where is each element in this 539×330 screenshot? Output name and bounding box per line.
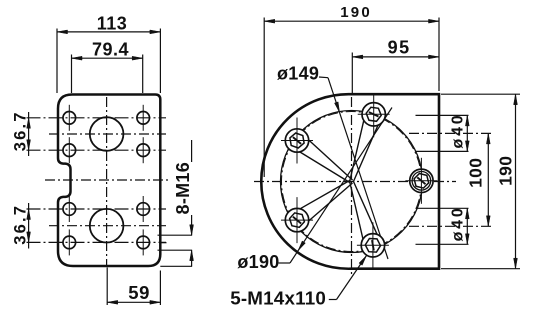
left view vertical centerline (106, 97, 108, 266)
bolt Q1 hex head (414, 174, 429, 189)
dim 100 (487, 133, 489, 226)
bolt boss B3 (285, 129, 308, 152)
dim 113 extension lines (56, 29, 58, 94)
dim 190 right extension lines (441, 93, 520, 95)
mounting hole H7 (M16) (63, 236, 76, 249)
dim 95 (352, 56, 439, 58)
o40 hole bottom: tangent lines (416, 207, 469, 209)
dim 59 extension lines (106, 268, 108, 306)
dim 79.4 extension lines (71, 55, 73, 94)
bore circle B2 centerline (49, 225, 166, 227)
left view main horizontal centerline (45, 179, 168, 181)
hole row 4 centerline (27, 241, 167, 243)
dim 113 (57, 31, 160, 33)
bore circle B2 (90, 209, 124, 243)
label 8-M16 with leader (191, 140, 193, 162)
hole row 3 centerline (27, 208, 167, 210)
label 5-M14x110 with leader (329, 299, 337, 301)
svg-text:36.7: 36.7 (11, 204, 29, 245)
mounting hole H2 (M16) (137, 112, 150, 125)
o40 hole top: tangent lines (416, 114, 469, 116)
bolt Q2 hex head (366, 107, 381, 121)
bore circle B1 centerline (49, 133, 166, 135)
leader line o149 (319, 76, 328, 79)
hole row 2 centerline (27, 149, 167, 151)
svg-text:190: 190 (340, 4, 372, 21)
right view plate outline (261, 94, 439, 269)
svg-text:36.7: 36.7 (11, 110, 29, 151)
dim 79.4 (72, 57, 143, 59)
bolt circle (dash-dot, o149) (282, 112, 422, 252)
dim 59 (107, 301, 160, 303)
mounting hole H5 (M16) (63, 203, 76, 216)
bolt Q1 center ticks (420, 158, 422, 204)
bore circle B1 (90, 117, 124, 151)
dim 36.7 top (28, 112, 30, 156)
svg-text:113: 113 (97, 13, 128, 33)
dim 190 top (264, 20, 439, 22)
bolt Q5 hex head (365, 239, 380, 253)
dim o40 bottom (466, 208, 468, 244)
mounting hole H6 (M16) (137, 203, 150, 216)
bolt Q4 center ticks (296, 197, 298, 243)
svg-text:100: 100 (466, 158, 486, 188)
dim 190 right (515, 94, 517, 269)
svg-text:ø40: ø40 (449, 113, 466, 149)
bolt boss B2 (362, 103, 385, 126)
svg-text:ø149: ø149 (277, 64, 319, 84)
bolt Q2 center ticks (373, 95, 375, 137)
right view vertical centerline (351, 97, 353, 277)
bolt Q3 hex head (290, 133, 304, 148)
web spokes (350, 112, 366, 181)
mounting hole H4 (M16) (137, 144, 150, 157)
svg-text:ø190: ø190 (237, 252, 279, 272)
svg-text:ø40: ø40 (449, 205, 466, 241)
dim 190 top extension lines (263, 18, 265, 178)
o40 hole top centerline (409, 132, 494, 134)
dim 95 extension line (351, 53, 353, 94)
dim 36.7 bottom (28, 203, 30, 249)
inner web circle (281, 111, 423, 253)
svg-text:8-M16: 8-M16 (173, 162, 193, 215)
dim o40 top (466, 115, 468, 151)
right view horizontal centerline (254, 181, 456, 183)
left view plate outline (58, 95, 160, 267)
svg-text:5-M14x110: 5-M14x110 (230, 288, 326, 309)
svg-text:79.4: 79.4 (92, 39, 129, 59)
svg-text:190: 190 (496, 156, 516, 186)
svg-text:59: 59 (128, 282, 150, 303)
o40 hole bottom centerline (409, 225, 494, 227)
bolt boss B1 (410, 169, 433, 192)
hole row 1 centerline (27, 117, 167, 119)
bolt boss B4 (285, 208, 308, 231)
svg-text:95: 95 (388, 37, 411, 57)
bolt Q5 center ticks (372, 222, 374, 267)
leader line o190 (279, 262, 291, 264)
bolt Q4 hex head (290, 213, 305, 227)
mounting hole H3 (M16) (63, 144, 76, 157)
bolt boss B5 (361, 234, 384, 257)
mounting hole H8 (M16) (137, 236, 150, 249)
bolt Q3 center ticks (296, 118, 298, 164)
mounting hole H1 (M16) (63, 112, 76, 125)
